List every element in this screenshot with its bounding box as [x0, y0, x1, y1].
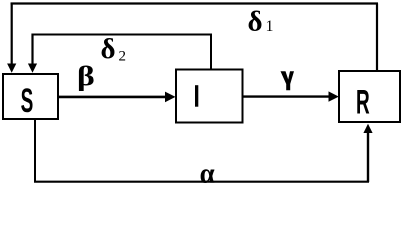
- box I: [176, 70, 243, 123]
- svg-text:β: β: [77, 61, 95, 91]
- arrowhead alpha into R bottom: [363, 124, 372, 133]
- label R: [356, 83, 370, 121]
- wire delta1 top horizontal: [11, 2, 378, 4]
- svg-text:δ: δ: [248, 6, 263, 38]
- label delta1: [248, 6, 274, 38]
- label S: [21, 81, 34, 119]
- wire alpha right vertical up to R: [367, 133, 369, 183]
- wire delta1 left vertical into S: [11, 3, 13, 65]
- arrow beta S to I: [59, 96, 167, 99]
- wire delta2 right vertical into I top: [210, 35, 212, 69]
- label gamma: [281, 71, 295, 90]
- wire delta2 left vertical into S: [31, 34, 33, 65]
- svg-text:R: R: [356, 83, 370, 121]
- label delta2: [101, 33, 127, 65]
- arrowhead delta1 into S top: [7, 64, 16, 73]
- label I: [195, 85, 198, 107]
- arrowhead delta2 into S top: [28, 64, 37, 73]
- wire alpha vertical from S bottom: [34, 120, 36, 182]
- svg-text:S: S: [21, 81, 34, 119]
- svg-text:α: α: [200, 157, 216, 185]
- arrow gamma I to R: [243, 95, 330, 97]
- box R: [339, 71, 400, 122]
- svg-text:2: 2: [119, 48, 127, 64]
- wire delta2 horizontal: [32, 34, 213, 36]
- box S: [3, 74, 58, 119]
- wire alpha bottom horizontal: [34, 181, 369, 183]
- wire delta1 vertical from R top: [376, 4, 378, 71]
- label alpha: [200, 157, 216, 189]
- svg-text:δ: δ: [101, 33, 116, 65]
- label beta: [77, 61, 95, 91]
- svg-text:1: 1: [266, 18, 274, 35]
